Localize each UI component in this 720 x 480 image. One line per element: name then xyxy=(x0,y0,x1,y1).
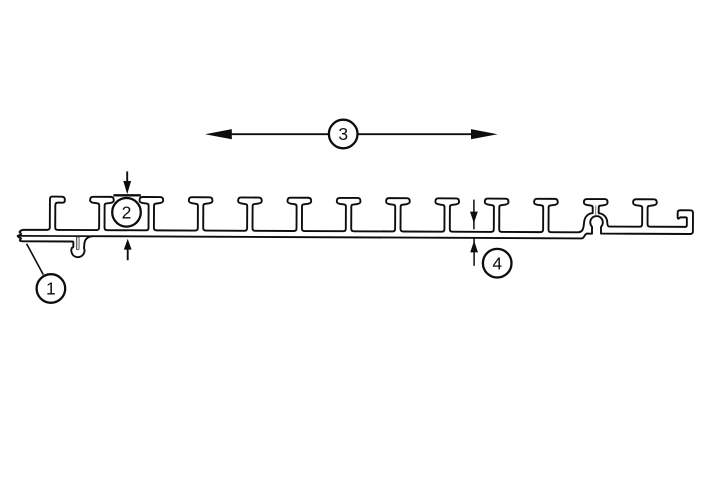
svg-text:2: 2 xyxy=(122,202,132,222)
svg-text:3: 3 xyxy=(338,124,348,144)
svg-text:1: 1 xyxy=(46,279,56,299)
svg-text:4: 4 xyxy=(492,253,502,273)
